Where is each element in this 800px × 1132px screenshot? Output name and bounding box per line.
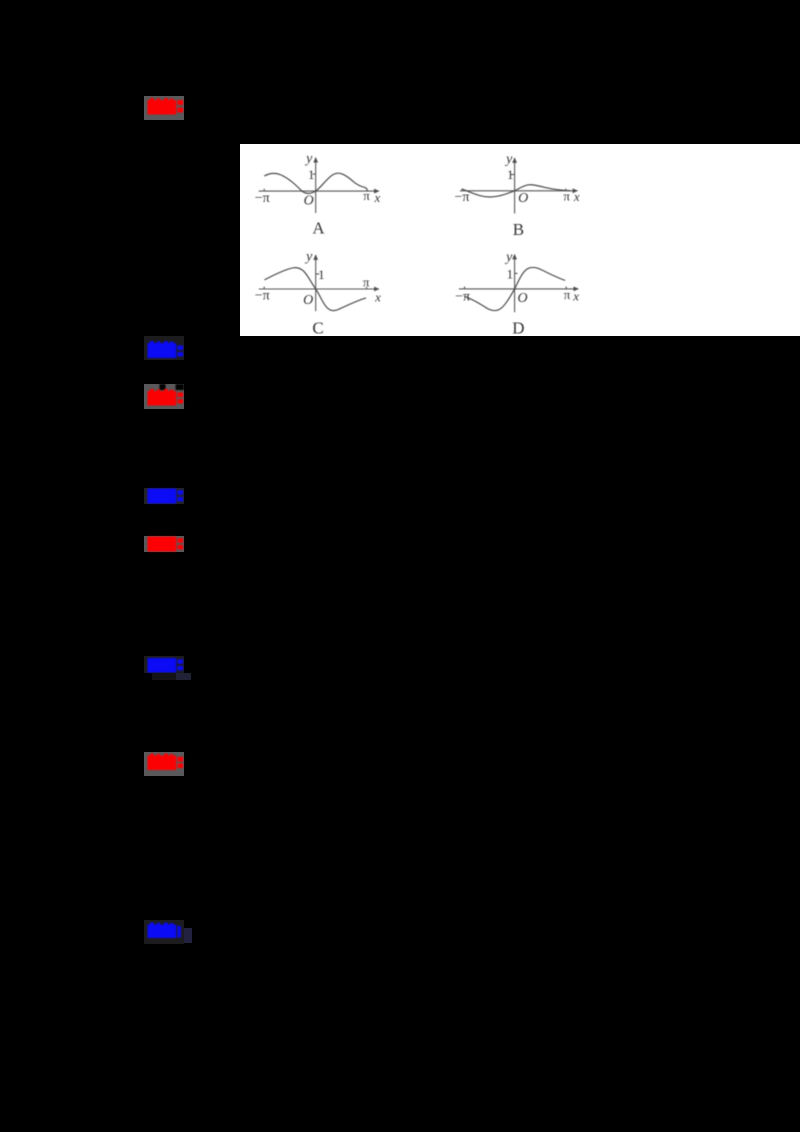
graph D axes xyxy=(459,287,578,289)
tag blue1 "答案:" xyxy=(144,336,184,360)
svg-text:x: x xyxy=(573,189,580,204)
svg-text:y: y xyxy=(304,151,313,166)
svg-text:1: 1 xyxy=(506,266,513,281)
tag blue2 "答案:" xyxy=(144,488,184,504)
tag red3 "解析:" xyxy=(144,536,184,552)
dark extension under blue3 xyxy=(152,673,191,680)
graph A curve xyxy=(264,173,367,193)
svg-text:y: y xyxy=(304,249,313,264)
svg-text:π: π xyxy=(563,188,570,203)
graph B axes xyxy=(460,189,577,191)
tag red4 "解析:" xyxy=(144,752,184,776)
svg-text:−π: −π xyxy=(255,190,270,205)
svg-text:x: x xyxy=(572,288,579,303)
svg-text:π: π xyxy=(564,287,571,302)
graph D curve xyxy=(464,267,565,310)
svg-text:−π: −π xyxy=(455,289,470,304)
graph C curve xyxy=(264,267,366,310)
svg-text:y: y xyxy=(504,249,513,264)
svg-text:1: 1 xyxy=(507,167,514,182)
tag blue4 "答案:" xyxy=(144,920,184,944)
svg-text:−π: −π xyxy=(454,189,469,204)
svg-text:1: 1 xyxy=(318,266,325,281)
svg-text:x: x xyxy=(373,190,380,205)
svg-text:O: O xyxy=(517,290,527,305)
graph A axes xyxy=(258,190,378,192)
svg-text:1: 1 xyxy=(308,167,315,182)
svg-text:x: x xyxy=(374,289,381,304)
svg-text:y: y xyxy=(504,152,513,167)
graph B curve xyxy=(462,184,570,196)
svg-text:O: O xyxy=(303,193,313,208)
svg-text:O: O xyxy=(303,292,313,307)
svg-text:C: C xyxy=(312,318,323,336)
figure: white box with graphs A-D xyxy=(240,144,800,336)
svg-text:π: π xyxy=(363,188,370,203)
svg-text:−π: −π xyxy=(255,288,270,303)
svg-text:A: A xyxy=(312,218,325,237)
dark navy extension right of blue4 xyxy=(184,928,192,944)
svg-text:B: B xyxy=(513,220,524,239)
tag red2 "解析:" xyxy=(144,384,184,408)
graph C axes xyxy=(258,287,378,289)
tag red1 "解析:" xyxy=(144,96,184,120)
svg-text:D: D xyxy=(512,318,524,336)
svg-text:π: π xyxy=(363,274,370,289)
svg-text:O: O xyxy=(518,191,528,206)
tag blue3 "答案:" xyxy=(144,656,184,673)
